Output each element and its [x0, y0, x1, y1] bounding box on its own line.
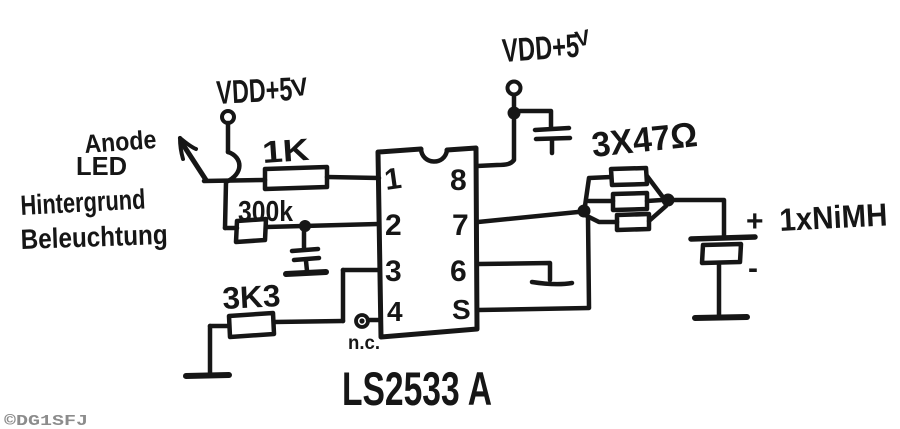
wire R4 right to dot	[647, 176, 662, 196]
svg-text:3: 3	[385, 255, 402, 288]
wire hop over LED wire	[226, 152, 239, 182]
battery BT1 body plate	[702, 244, 741, 263]
svg-text:1: 1	[382, 162, 403, 197]
wire R3 left	[210, 324, 229, 329]
node n.c. terminal	[356, 315, 368, 327]
node left network dot	[578, 205, 591, 218]
svg-text:S: S	[452, 294, 471, 325]
wire left rail to R5	[589, 199, 613, 204]
wire pin 8 to VDD right	[477, 119, 514, 166]
resistor R3 3K3 body	[229, 313, 274, 337]
capacitor C2 plates	[535, 128, 569, 130]
wire pin 7 to resistor network	[478, 212, 578, 222]
battery BT1 top plate	[691, 237, 755, 239]
svg-text:3K3: 3K3	[222, 278, 282, 316]
wire network to battery	[674, 200, 724, 237]
svg-text:©DG1SFJ: ©DG1SFJ	[4, 413, 88, 429]
svg-text:4: 4	[387, 296, 403, 327]
ground battery	[695, 317, 747, 318]
wire n.c. to pin 4	[368, 318, 380, 323]
wire R6 right to dot	[649, 206, 666, 221]
IC notch	[421, 149, 447, 162]
resistor R4 47 body	[611, 168, 647, 185]
svg-text:Hintergrund: Hintergrund	[20, 183, 146, 220]
resistor R5 47 body	[613, 193, 647, 210]
svg-text:7: 7	[452, 209, 469, 242]
wire 300k stub	[225, 226, 237, 231]
wire pin 5	[478, 308, 589, 310]
node junction dot pin2	[299, 220, 311, 232]
LED anode arrow	[182, 143, 206, 180]
node VDD left terminal	[222, 111, 234, 123]
svg-text:1xNiMH: 1xNiMH	[778, 196, 888, 238]
svg-text:-: -	[748, 252, 758, 285]
wire pin 6 stub bar	[532, 282, 572, 284]
svg-text:300k: 300k	[238, 196, 294, 228]
wire junction to 300k vertical	[225, 182, 226, 228]
capacitor C2 bottom lead	[550, 140, 555, 153]
wire left rail to R6	[587, 216, 617, 222]
capacitor C1 bottom lead	[306, 261, 307, 271]
node VDD right junction dot	[508, 107, 521, 120]
wire left rail up	[585, 177, 611, 206]
wire terminal stub	[512, 95, 517, 107]
wire pin 3 horizontal	[343, 268, 379, 273]
wire pin 3 vertical	[341, 270, 346, 321]
svg-text:2: 2	[385, 209, 402, 242]
wire R5 right to dot	[647, 200, 662, 201]
ground left	[186, 375, 229, 376]
node VDD right terminal	[508, 82, 521, 95]
svg-text:VDD+5: VDD+5	[501, 27, 580, 69]
capacitor C1 lead	[302, 231, 307, 248]
battery BT1 lead	[717, 263, 722, 315]
capacitor C1 plates	[292, 249, 318, 251]
wire R3 to pin3 net	[274, 321, 343, 322]
resistor R6 47 body	[617, 214, 649, 230]
svg-text:LS2533 A: LS2533 A	[342, 362, 492, 415]
svg-text:LED: LED	[76, 151, 127, 181]
svg-text:8: 8	[450, 164, 467, 197]
svg-text:VDD+5: VDD+5	[215, 70, 293, 111]
capacitor C1 bottom bar	[286, 272, 326, 274]
svg-text:n.c.: n.c.	[348, 333, 380, 354]
resistor R1 1K body	[265, 167, 327, 189]
resistor R2 300k body	[236, 219, 266, 242]
IC U1 LS2533A body	[378, 148, 477, 337]
node right network dot	[662, 194, 675, 207]
wire left rail down to pin 5	[588, 217, 589, 307]
wire VDD left vertical	[226, 123, 231, 152]
wire pin 6	[478, 263, 550, 280]
svg-text:V: V	[289, 72, 311, 103]
svg-text:6: 6	[450, 255, 467, 288]
wire R1 to pin 1	[327, 177, 379, 178]
svg-text:3X47Ω: 3X47Ω	[590, 115, 699, 165]
svg-text:+: +	[746, 205, 764, 238]
wire to ground left	[208, 326, 213, 374]
svg-text:Beleuchtung: Beleuchtung	[20, 219, 168, 255]
wire VDD dot to capacitor C2	[520, 111, 551, 127]
wire LED junction to R1	[204, 180, 265, 181]
wire R2 to pin 2	[266, 224, 378, 227]
svg-text:1K: 1K	[261, 132, 311, 170]
